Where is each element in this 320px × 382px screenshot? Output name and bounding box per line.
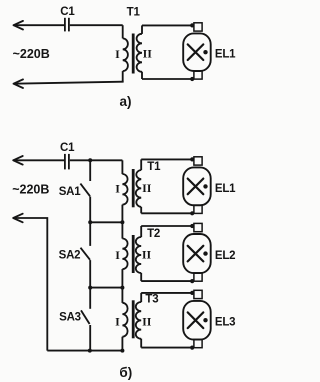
lamp EL2 bottom cap	[194, 273, 202, 281]
transformer T1 secondary winding bumps	[136, 170, 141, 207]
svg-text:SA2: SA2	[59, 250, 81, 262]
winding label I (primary) of T3	[115, 314, 120, 328]
label ~220V (circuit b)	[12, 183, 49, 197]
transformer T1 core	[132, 169, 135, 207]
wire: lamp EL1 bottom to T1 secondary bottom (circuit b)	[141, 212, 192, 214]
switch SA2 upper contact lead	[89, 222, 91, 246]
transformer T2 secondary winding bumps	[136, 237, 141, 273]
winding label II (secondary) of T3	[142, 314, 152, 328]
junction dot at EL2 bottom terminal	[190, 279, 194, 283]
transformer T1 (circuit b) secondary lead, upper	[140, 159, 142, 170]
junction dot T3 primary bottom	[120, 349, 124, 353]
lamp EL1 bulb	[183, 33, 211, 71]
lamp EL1 X electrode symbol	[188, 179, 204, 195]
junction dot at EL3 bottom terminal	[190, 346, 194, 350]
label SA3	[59, 311, 81, 323]
label C1 (circuit b)	[60, 142, 75, 154]
wire: node B horizontal (bus to primary chain)	[90, 221, 122, 223]
source terminal arrow (circuit a, return)	[14, 79, 24, 88]
transformer T2 secondary lead, upper	[140, 226, 142, 237]
transformer T1 secondary winding bumps	[137, 34, 142, 72]
label ~220V (circuit a)	[13, 47, 50, 61]
svg-text:EL2: EL2	[215, 250, 236, 262]
transformer T1 (circuit a) primary lead, lower	[122, 71, 124, 82]
lamp EL2 X electrode symbol	[188, 246, 204, 262]
capacitor C1 (circuit a)	[65, 18, 69, 32]
lamp EL3 gas-filling dot	[203, 318, 207, 322]
lamp EL1 gas-filling dot	[203, 50, 207, 54]
svg-text:II: II	[143, 47, 153, 61]
source terminal arrow (circuit b, return)	[13, 214, 23, 223]
junction dot at EL1 top terminal	[190, 23, 194, 27]
label T1	[127, 7, 141, 19]
junction dot node B at bus	[88, 220, 92, 224]
winding label II (secondary) of T1	[143, 47, 153, 61]
primary chain lead: node A to T1 winding	[121, 160, 123, 174]
wire: lamp EL2 bottom to T2 secondary bottom	[141, 280, 192, 282]
label T2	[147, 228, 160, 240]
label T3	[145, 293, 158, 305]
svg-text:II: II	[142, 314, 152, 328]
svg-text:T1: T1	[147, 161, 161, 173]
svg-text:I: I	[115, 182, 120, 196]
junction dot node C at primary chain	[120, 286, 124, 290]
wire: arrow to C1 (circuit b top)	[13, 159, 64, 161]
junction dot at EL3 top terminal	[190, 291, 194, 295]
transformer T1 primary winding bumps	[123, 38, 128, 71]
lamp EL2 bulb	[183, 234, 211, 273]
switch SA3 upper contact lead	[89, 288, 91, 309]
transformer T2 secondary lead, lower	[140, 273, 142, 281]
svg-text:а): а)	[119, 94, 131, 109]
wire: arrow to C1 (circuit a top)	[14, 24, 65, 26]
wire: return arrow down the left side to bottom (circuit b)	[13, 218, 47, 351]
junction dot at EL2 top terminal	[190, 224, 194, 228]
wire: bottom return to T3 primary bottom	[47, 350, 122, 352]
lamp EL1 bottom cap	[194, 205, 202, 213]
switch SA1 blade	[80, 184, 90, 197]
switch SA3 blade	[81, 310, 90, 324]
label T1	[147, 161, 161, 173]
transformer T1 core	[132, 34, 135, 74]
svg-text:II: II	[142, 248, 152, 262]
svg-text:I: I	[115, 314, 120, 328]
junction dot node A (bus top)	[88, 158, 92, 162]
winding label II (secondary) of T2	[142, 248, 152, 262]
caption a)	[119, 94, 131, 109]
lamp EL3 bottom cap	[194, 339, 202, 347]
lamp EL3 top cap	[194, 290, 202, 298]
label EL2	[215, 250, 236, 262]
label SA1	[59, 186, 82, 198]
transformer T3 secondary winding bumps	[136, 302, 141, 339]
label EL1	[215, 49, 236, 61]
svg-text:~220В: ~220В	[13, 47, 50, 61]
switch SA1 upper contact lead	[89, 160, 91, 181]
transformer T2 primary winding bumps	[122, 239, 127, 270]
svg-text:SA1: SA1	[59, 186, 82, 198]
winding label I (primary) of T1	[115, 182, 120, 196]
lamp EL2 top cap	[194, 223, 202, 231]
label C1 (circuit a)	[60, 6, 75, 18]
lamp EL1 X electrode symbol	[188, 44, 204, 60]
junction dot at EL1 bottom terminal	[190, 211, 194, 215]
svg-text:EL3: EL3	[215, 317, 236, 329]
svg-text:C1: C1	[60, 142, 75, 154]
wire: C1 to node A and T1 primary top (circuit b)	[70, 159, 123, 161]
junction dot node C at bus	[88, 286, 92, 290]
svg-text:SA3: SA3	[59, 311, 81, 323]
svg-text:б): б)	[119, 365, 132, 380]
wire: C1 to T1 primary top (circuit a)	[70, 24, 123, 26]
label EL3	[215, 317, 236, 329]
wire: T1 primary bottom to return arrow (circuit a)	[14, 81, 123, 84]
winding label I (primary) of T2	[115, 248, 120, 262]
svg-text:C1: C1	[60, 6, 75, 18]
junction dot at EL1 top terminal	[190, 157, 194, 161]
wire: node C horizontal (bus to primary chain)	[90, 287, 122, 289]
switch SA1 lower contact lead	[89, 197, 91, 223]
lamp EL1 gas-filling dot	[203, 184, 207, 188]
junction dot SA3 at bottom return wire	[88, 349, 92, 353]
transformer T1 primary winding bumps	[122, 174, 127, 205]
lamp EL3 X electrode symbol	[188, 312, 204, 328]
source terminal arrow (circuit b, phase)	[13, 156, 23, 165]
svg-text:~220В: ~220В	[12, 183, 49, 197]
wire: T2 secondary top to lamp EL2	[141, 225, 192, 227]
lamp EL1 bulb	[183, 167, 211, 205]
source terminal arrow (circuit a, phase)	[14, 21, 24, 30]
svg-text:T2: T2	[147, 228, 160, 240]
transformer T2 core	[132, 235, 135, 273]
winding label I (primary) of T1	[115, 47, 120, 61]
transformer T1 (circuit a) secondary lead, lower	[141, 72, 143, 79]
transformer T3 secondary lead, upper	[140, 293, 142, 302]
wire: T1 secondary top to lamp EL1 (circuit a)	[142, 24, 192, 26]
switch SA3 lower contact lead	[89, 325, 91, 351]
wire: T3 secondary top to lamp EL3	[141, 292, 192, 294]
svg-text:EL1: EL1	[215, 49, 236, 61]
transformer T3 core	[132, 300, 135, 338]
lamp EL2 gas-filling dot	[203, 251, 207, 255]
junction dot at EL1 bottom terminal	[190, 77, 194, 81]
switch SA2 lower contact lead	[89, 260, 91, 288]
transformer T3 secondary lead, lower	[140, 339, 142, 348]
wire: lamp EL3 bottom to T3 secondary bottom	[141, 347, 192, 349]
svg-text:T1: T1	[127, 7, 141, 19]
label EL1	[215, 183, 236, 195]
lamp EL1 top cap	[194, 23, 202, 31]
winding label II (secondary) of T1	[142, 181, 152, 195]
caption b)	[119, 365, 132, 380]
svg-text:EL1: EL1	[215, 183, 236, 195]
capacitor C1 (circuit b)	[65, 154, 69, 170]
primary chain lead: T3 winding to bottom return	[121, 337, 123, 351]
wire: lamp EL1 bottom to T1 secondary bottom (circuit a)	[142, 78, 192, 80]
svg-text:II: II	[142, 181, 152, 195]
lamp EL1 top cap	[194, 157, 202, 165]
transformer T3 primary winding bumps	[122, 303, 127, 337]
switch SA2 blade	[81, 248, 91, 260]
primary chain lead: T2 winding to T3 winding	[121, 269, 123, 303]
svg-text:I: I	[115, 248, 120, 262]
wire: T1 secondary top to lamp EL1 (circuit b)	[141, 158, 192, 160]
transformer T1 (circuit a) secondary lead, upper	[141, 25, 143, 34]
label SA2	[59, 250, 81, 262]
junction dot node B at primary chain	[120, 220, 124, 224]
primary chain lead: T1 winding to T2 winding	[121, 205, 123, 239]
lamp EL1 bottom cap	[194, 71, 202, 79]
svg-text:I: I	[115, 47, 120, 61]
svg-text:T3: T3	[145, 293, 158, 305]
transformer T1 (circuit a) primary lead, upper	[122, 25, 124, 38]
transformer T1 (circuit b) secondary lead, lower	[140, 207, 142, 213]
lamp EL3 bulb	[183, 301, 211, 340]
